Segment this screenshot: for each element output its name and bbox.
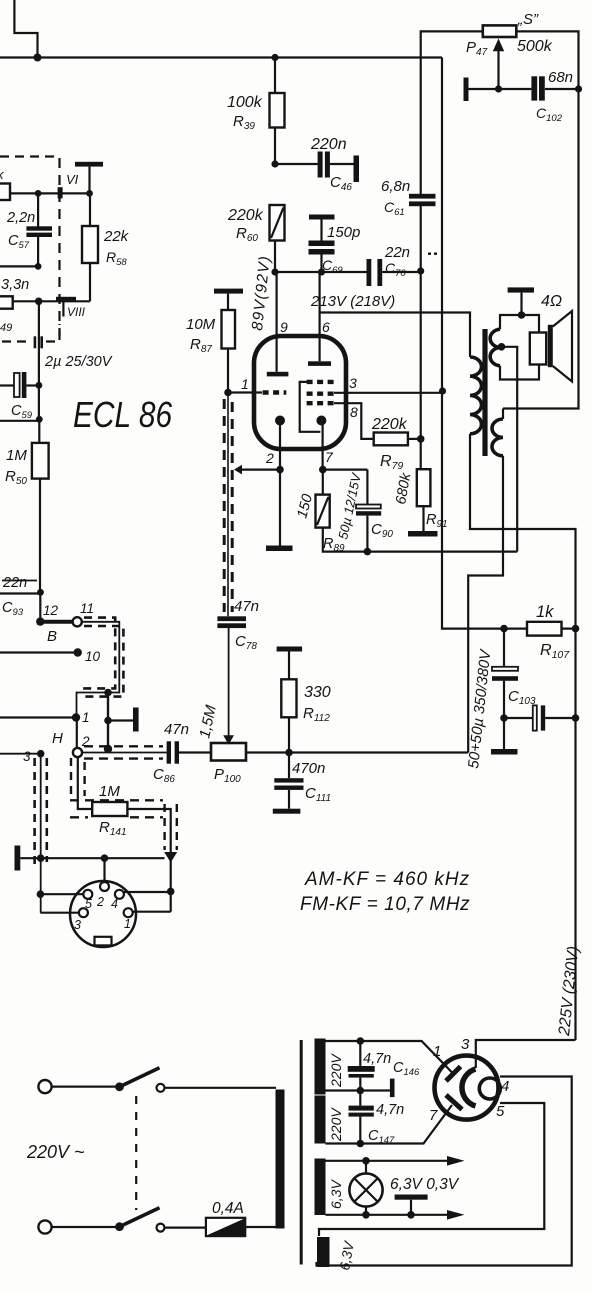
wiper feed from C78 with arrow	[228, 628, 230, 737]
node: C57 top junction	[35, 190, 42, 197]
svg-text:12: 12	[43, 603, 59, 618]
svg-text:0,4A: 0,4A	[212, 1200, 244, 1217]
wiper arrow of P47	[493, 39, 504, 52]
terminal above speaker line	[508, 287, 534, 292]
svg-text:1: 1	[241, 376, 249, 392]
svg-text:C103: C103	[508, 688, 536, 707]
wire: pin 10 to left edge	[0, 651, 78, 653]
shield dashes right of R141	[165, 804, 177, 850]
pilot lamp	[349, 1173, 382, 1206]
resistor R39	[274, 58, 276, 94]
svg-text:C102: C102	[536, 105, 563, 124]
node: C59 junction	[36, 382, 43, 389]
wire: primary bottom to B+ corner	[470, 434, 576, 629]
pentode cathode lead pin 7	[322, 423, 324, 470]
triode anode bar	[267, 372, 289, 377]
pentode anode bar	[308, 361, 331, 366]
svg-text:C111: C111	[305, 785, 331, 804]
svg-text:C69: C69	[322, 257, 343, 276]
svg-text:C59: C59	[11, 403, 33, 421]
svg-text:R79: R79	[380, 453, 403, 472]
capacitor C102	[531, 76, 537, 100]
wire: to DIN pin 5	[40, 893, 83, 895]
svg-text:10M: 10M	[186, 316, 216, 333]
svg-text:B: B	[47, 628, 57, 645]
svg-text:220V: 220V	[328, 1107, 344, 1142]
svg-text:R91: R91	[426, 512, 448, 530]
resistor R112	[281, 679, 296, 717]
node: C103b right junction	[572, 714, 580, 722]
svg-text:8: 8	[350, 404, 358, 420]
svg-text:R58: R58	[106, 249, 127, 268]
svg-text:P100: P100	[214, 766, 241, 785]
resistor R79	[374, 433, 408, 446]
node: secondary centre tap	[498, 343, 506, 351]
shielded line tube pin1 to C78: center conductor	[227, 393, 229, 617]
svg-text:220k: 220k	[227, 207, 264, 224]
svg-text:4Ω: 4Ω	[541, 293, 562, 310]
svg-text:500k: 500k	[517, 38, 553, 55]
svg-text:4: 4	[111, 897, 118, 911]
secondary bar 6,3V lower (rectifier heater)	[317, 1237, 330, 1267]
wire: pot left wire + bus x=420.7 through C61	[421, 31, 483, 469]
rectifier pip circle pin4	[479, 1078, 500, 1099]
pin 11 open circle	[73, 617, 82, 626]
switch dashed link	[135, 1096, 137, 1210]
node: pin 10 dot	[74, 648, 82, 656]
wire: top tone line y=89 with terminal	[464, 78, 469, 102]
secondary top winding arcs	[490, 329, 500, 366]
wire: y=193.4 from resistor to VI/R58	[10, 192, 90, 194]
shielded run down left: dashed screen right	[45, 758, 48, 862]
node: R39/C46 junction	[271, 160, 278, 167]
svg-text:49: 49	[0, 322, 12, 334]
node: DIN pin2 stem junction	[101, 854, 109, 862]
node: lamp bottom	[362, 1211, 370, 1219]
triode anode lead to pin 9	[276, 272, 278, 372]
capacitor C70	[367, 259, 372, 286]
wire: pin7 to C90 stem	[323, 469, 368, 471]
wire: feedback winding top to C102 line	[502, 409, 504, 420]
svg-text:68n: 68n	[548, 69, 573, 86]
svg-text:AM-KF = 460 kHz: AM-KF = 460 kHz	[304, 869, 470, 890]
node: pin4 branch dot	[167, 888, 175, 896]
potentiometer P100	[211, 743, 246, 761]
node: C146 top	[357, 1037, 365, 1045]
node: heater ground stem	[407, 1211, 415, 1219]
svg-text:6,8n: 6,8n	[381, 178, 410, 195]
shielded run down left: center conductor	[40, 754, 42, 913]
pin 2 open circle (H)	[73, 748, 82, 757]
node: speaker top junction	[518, 311, 526, 319]
terminal above R87	[214, 289, 243, 294]
wire: vertical x=39 down to C59	[38, 301, 40, 385]
shielded run down left: dashed screen left	[33, 758, 36, 866]
pentode grid rows	[307, 382, 334, 403]
wire: 220V bottom to rectifier pin 7	[326, 1105, 453, 1144]
terminal bar left at y=858	[15, 846, 21, 871]
DIN pin 5	[83, 890, 92, 899]
node: R39 top on rail	[271, 54, 278, 61]
svg-text:1: 1	[433, 1043, 441, 1060]
wire: feedback winding bottom jog to grid line	[468, 456, 503, 753]
capacitor C103 section a (electrolytic)	[503, 629, 505, 667]
wire: to DIN pin 3	[40, 912, 78, 914]
terminal above R112	[277, 647, 303, 652]
svg-text:C86: C86	[153, 766, 175, 785]
shield dashes around R141 top	[70, 799, 163, 801]
resistor R87	[222, 310, 236, 349]
pentode cathode dot	[316, 416, 326, 426]
wire: 220V top to rectifier pin 1	[326, 1041, 455, 1075]
svg-text:22n: 22n	[384, 244, 410, 261]
node: left wire y=266.4	[35, 263, 42, 270]
resistor R50	[38, 419, 40, 443]
capacitor C46	[275, 163, 318, 165]
wire: 213V line	[275, 271, 421, 273]
node: C103 mid junction	[500, 714, 508, 722]
wire: pin 3 cathode up to B+	[476, 1040, 576, 1068]
switch pole top	[115, 1082, 124, 1091]
svg-text:R112: R112	[303, 705, 330, 724]
svg-text:1k: 1k	[536, 603, 554, 621]
node: C69/pin6 junction	[318, 268, 325, 275]
DIN pin 2	[100, 882, 109, 891]
svg-text:C61: C61	[384, 199, 405, 218]
node: junction y=894 on left run	[37, 890, 45, 898]
wire: pin1 down to pin2 circle	[76, 718, 78, 749]
svg-text:2µ 25/30V: 2µ 25/30V	[44, 354, 113, 370]
wire: centre tap with terminal bar	[326, 1089, 390, 1091]
shielded line from pin 11: dashed screen inner	[81, 618, 116, 689]
resistor R49 (partial) at left edge	[0, 296, 13, 308]
svg-text:6,3V: 6,3V	[328, 1179, 344, 1209]
rectifier anode tick 1	[446, 1067, 461, 1082]
node: branch mid junction	[104, 717, 112, 725]
wire: pentode anode to primary top	[320, 313, 470, 358]
svg-text:3: 3	[349, 375, 357, 391]
svg-text:2: 2	[96, 895, 104, 909]
shield box dashed border right side	[58, 158, 60, 336]
power transformer core line	[300, 1040, 303, 1265]
resistor R60 (with diagonal mark)	[270, 205, 285, 241]
node: C147 bottom	[357, 1140, 365, 1148]
svg-text:VI: VI	[66, 172, 79, 187]
svg-text:H: H	[52, 730, 63, 747]
shield termination triangle	[164, 852, 177, 863]
node: R107 left	[500, 625, 508, 633]
wire: pin 5 heater to lower 6,3V top	[319, 1103, 544, 1236]
wire: branch to DIN pin 1	[133, 911, 171, 913]
node: socket pin 3 feed dot	[37, 750, 45, 758]
svg-text:P47: P47	[466, 39, 488, 58]
node: R107 right	[572, 625, 580, 633]
svg-text:4: 4	[501, 1078, 509, 1095]
resistor R107	[527, 622, 562, 636]
ground: C111	[273, 809, 301, 814]
svg-text:9: 9	[280, 319, 288, 335]
node: pin 1 dot	[72, 713, 80, 721]
svg-text:680k: 680k	[393, 471, 414, 505]
capacitor C69 with terminal bar	[309, 215, 335, 220]
capacitor C147	[359, 1091, 361, 1106]
wire: down to pin 12	[39, 592, 41, 621]
node: junction on shield run y=692.5	[104, 689, 112, 697]
shield dashes pin2 drop flanks	[71, 758, 85, 800]
wire: main B+ rail y=57.5	[0, 56, 442, 58]
wire: y=420.8 to left edge	[0, 420, 39, 422]
mark: line through 22n label	[2, 580, 37, 582]
node: 213V joins bus x=421	[417, 267, 424, 274]
shield box dashed border top	[0, 155, 60, 157]
wire: stem down to DIN pin 2	[103, 858, 105, 882]
svg-text:50µ 12/15V: 50µ 12/15V	[335, 471, 364, 541]
wire: pin 8 lead to R79	[334, 403, 374, 439]
svg-text:10: 10	[85, 649, 101, 664]
svg-text:47n: 47n	[234, 598, 259, 615]
terminal bar right of branch	[108, 719, 133, 721]
node: R60 bottom / 213V line / pin9	[271, 268, 278, 275]
tube ECL86 envelope	[254, 336, 346, 449]
svg-text:3: 3	[23, 749, 31, 764]
DIN connector outline	[70, 881, 136, 947]
rectifier anode tick 7	[446, 1095, 462, 1110]
wire: pin 3 lead to bus	[334, 392, 442, 394]
wire: y=301.3	[13, 300, 90, 302]
secondary bar 6,3V upper	[315, 1159, 326, 1216]
svg-text:50+50µ 350/380V: 50+50µ 350/380V	[465, 647, 495, 769]
resistor R91	[417, 469, 431, 506]
svg-text:225V (230V): 225V (230V)	[556, 945, 582, 1037]
wire: y=266.4 to left edge	[0, 265, 38, 267]
primary winding arcs	[470, 357, 482, 434]
shielded line tube pin1 to C78: dashed screen right	[231, 402, 234, 612]
capacitor C90 (electrolytic)	[366, 470, 368, 505]
svg-text:C46: C46	[330, 174, 352, 193]
svg-text:3,3n: 3,3n	[1, 277, 29, 293]
node: shield ground junction	[37, 854, 45, 862]
wire: feedback line y=551.6 to transformer tap	[367, 550, 517, 552]
resistor R141	[78, 757, 92, 809]
svg-text:2: 2	[265, 450, 274, 466]
svg-text:C70: C70	[385, 260, 406, 279]
terminal VIII	[56, 297, 76, 301]
node: lamp top	[362, 1157, 370, 1165]
node: VI/R58 junction	[86, 190, 93, 197]
shield bond arrow to pin 2	[234, 465, 242, 475]
svg-text:VIII: VIII	[67, 305, 86, 319]
node: pin3 wire joins bus x=442	[439, 387, 446, 394]
svg-text:150p: 150p	[327, 224, 360, 241]
svg-text:5: 5	[85, 897, 92, 911]
shield dashes around R141 bottom	[70, 816, 163, 818]
svg-text:C146: C146	[393, 1060, 420, 1078]
svg-text:89V(92V): 89V(92V)	[249, 254, 274, 331]
node: junction y=419.3	[36, 416, 43, 423]
svg-text:470n: 470n	[292, 760, 325, 777]
svg-text:2,2n: 2,2n	[6, 210, 35, 226]
wire: secondary top to speaker top	[500, 315, 539, 333]
node: wiper junction	[495, 85, 502, 92]
wire: right feedback line down to y=408.5	[503, 89, 579, 409]
svg-text:220V ~: 220V ~	[26, 1142, 85, 1162]
svg-text:7: 7	[429, 1107, 438, 1124]
wire: secondary bottom end to speaker bottom	[500, 365, 539, 380]
speaker box	[530, 333, 546, 365]
svg-text:ECL 86: ECL 86	[73, 395, 173, 435]
resistor R58	[89, 193, 91, 226]
secondary bar 220V lower	[315, 1096, 326, 1144]
terminal bar above heater line	[395, 1195, 428, 1200]
svg-text:R50: R50	[5, 468, 27, 487]
svg-text:R39: R39	[233, 113, 255, 132]
DIN pin 1	[124, 908, 133, 917]
capacitor C103 section b (electrolytic)	[504, 717, 533, 719]
svg-text:1M: 1M	[6, 447, 27, 464]
wire: branch down to C86 line	[107, 693, 109, 751]
mains terminal bottom	[38, 1220, 51, 1233]
svg-text:213V (218V): 213V (218V)	[310, 293, 395, 310]
svg-text:3: 3	[74, 918, 81, 932]
capacitor C86 with shield dashes	[84, 745, 163, 747]
wire: branch to DIN pin 4	[124, 891, 171, 893]
svg-text:220k: 220k	[371, 416, 408, 433]
svg-text:4,7n: 4,7n	[363, 1051, 391, 1067]
wire: tap to feedback drop	[502, 347, 518, 552]
resistor R89 (with diagonal)	[322, 470, 324, 495]
power transformer primary bar	[276, 1090, 285, 1229]
capacitor C78	[217, 616, 246, 621]
node: branch bottom blob	[104, 745, 112, 753]
rectifier tube envelope	[435, 1056, 499, 1120]
node: junction x=38.7 y=301.3	[35, 298, 43, 306]
svg-text:220V: 220V	[328, 1053, 344, 1088]
DIN pin 4	[115, 890, 124, 899]
shielded line tube pin1 to C78: dashed screen left	[223, 399, 226, 612]
wire: y=858.2 across to R141 drop	[41, 857, 165, 859]
mains terminal top	[38, 1080, 51, 1093]
pentode g3-cathode bracket	[300, 382, 321, 432]
svg-text:„S”: „S”	[517, 11, 539, 28]
terminal VI	[75, 162, 103, 167]
node: pin 12 dot	[36, 617, 44, 625]
triode cathode dot	[275, 416, 285, 426]
svg-text:330: 330	[304, 684, 331, 701]
ground: C103	[503, 718, 505, 749]
node: R79/R91 junction	[417, 435, 425, 443]
node: grid junction pin 1	[224, 389, 232, 397]
svg-text:C78: C78	[235, 633, 257, 652]
svg-text:3: 3	[461, 1036, 470, 1053]
node: pin 2 junction	[276, 466, 284, 474]
feedback winding arcs (bottom)	[492, 419, 503, 456]
node: centre tap junction	[357, 1087, 365, 1095]
node: C93 junction	[37, 589, 44, 596]
node: C102 right junction	[575, 85, 582, 92]
wire: thick link pin12 to pin11	[40, 620, 72, 624]
capacitor C111	[288, 753, 290, 779]
svg-text:R141: R141	[99, 819, 127, 838]
svg-text:11: 11	[80, 601, 94, 616]
svg-text:R87: R87	[190, 336, 212, 355]
svg-text:R107: R107	[540, 642, 570, 661]
resistor (partial) at left edge upper	[0, 184, 10, 201]
triode cathode lead pin 2	[279, 423, 281, 470]
secondary bar 220V upper	[315, 1039, 326, 1095]
capacitor 2u 25/30V plates	[34, 336, 37, 348]
svg-text:100k: 100k	[227, 94, 263, 111]
wire: 6,3V top line with arrow	[326, 1160, 449, 1162]
node: pin 7 junction	[319, 466, 327, 474]
svg-text:5: 5	[496, 1103, 505, 1120]
wire: bus from rail down x=442 to R107 node	[442, 58, 504, 629]
svg-text:R60: R60	[236, 225, 258, 244]
speaker bar	[548, 325, 553, 367]
speaker horn	[553, 311, 572, 382]
svg-text:C90: C90	[371, 521, 393, 540]
capacitor C57	[37, 193, 39, 226]
node: junction dot on B+ rail top-left	[34, 54, 42, 62]
svg-text:1: 1	[124, 917, 131, 931]
pentode anode lead to pin 6	[319, 272, 321, 361]
svg-text:1M: 1M	[99, 783, 120, 800]
capacitor C61	[409, 194, 436, 199]
potentiometer P47	[483, 25, 517, 37]
wire: B+ vertical down to rectifier	[574, 629, 576, 1040]
svg-text:FM-KF = 10,7 MHz: FM-KF = 10,7 MHz	[300, 894, 470, 915]
wire: pin 1 to left edge	[0, 716, 76, 718]
capacitor C59 (electrolytic)	[0, 384, 14, 386]
svg-text:47n: 47n	[164, 721, 189, 738]
wire: 6,3V bottom line with arrow	[326, 1214, 449, 1216]
capacitor C146	[359, 1041, 361, 1066]
ground: triode cathode	[279, 470, 281, 546]
wire: down to y=419.3	[38, 385, 40, 419]
svg-text:7: 7	[325, 449, 334, 465]
node: R89/C90 bottom junction	[364, 548, 372, 556]
shielded line from pin 11: dashed screen outer	[81, 626, 123, 697]
triode grid dashes	[263, 390, 287, 394]
svg-text:22n: 22n	[2, 575, 27, 591]
mark: two specks near bus	[428, 253, 431, 255]
svg-text:220n: 220n	[310, 136, 347, 153]
svg-text:1: 1	[82, 710, 90, 725]
wire: continue down to DIN pins	[170, 858, 172, 912]
wire: input stub box top-left	[14, 0, 37, 58]
svg-text:22k: 22k	[103, 228, 130, 245]
wire: pin 4 heater to lower 6,3V bottom	[317, 1077, 572, 1266]
svg-text:6,3V 0,3V: 6,3V 0,3V	[390, 1176, 460, 1193]
svg-text:k: k	[0, 167, 5, 182]
shield box dashed border bottom with 2u cap	[2, 340, 31, 342]
svg-text:6: 6	[322, 319, 330, 335]
svg-text:6,3V: 6,3V	[336, 1239, 357, 1272]
svg-text:4,7n: 4,7n	[376, 1102, 404, 1118]
transformer core bar	[482, 329, 487, 456]
rectifier cathode curve	[462, 1069, 476, 1106]
svg-text:1,5M: 1,5M	[196, 703, 220, 740]
svg-text:150: 150	[294, 493, 316, 521]
wire: to left edge y=753.7	[0, 753, 41, 755]
fuse 0,4A	[206, 1218, 245, 1236]
wire: pin 1 lead into grid	[228, 391, 262, 393]
mark: border dash crossing wire	[58, 187, 63, 198]
shielded line from pin 11: center conductor	[77, 622, 120, 714]
DIN keyway notch	[95, 937, 112, 946]
ground: R91	[408, 531, 438, 537]
svg-text:C93: C93	[2, 600, 24, 618]
wire: C93 wire y=593.5	[0, 592, 41, 594]
